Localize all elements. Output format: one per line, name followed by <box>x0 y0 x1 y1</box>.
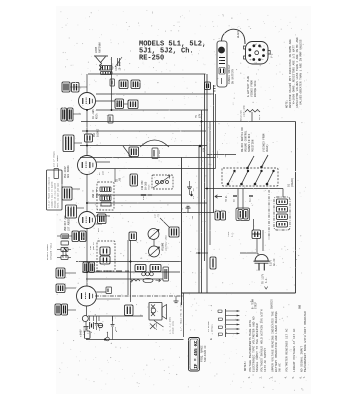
wire stamp links left <box>57 87 87 310</box>
part label R2 <box>128 100 138 109</box>
label text x45 <box>46 242 53 260</box>
label near v3 <box>97 227 100 232</box>
cap C21 near x183 <box>174 296 179 303</box>
svg-text:MICA: MICA <box>96 113 99 119</box>
cap marks x96 <box>95 316 102 331</box>
part label C9 <box>98 214 107 224</box>
label text x52 <box>53 151 60 167</box>
svg-text:5 OHMS: 5 OHMS <box>155 321 158 330</box>
label black lead <box>237 30 240 38</box>
antenna coil T1 secondary <box>101 72 113 75</box>
label switch on-off <box>241 127 248 152</box>
part label R5 <box>62 187 72 200</box>
svg-text:(REAR): (REAR) <box>290 177 294 187</box>
trimmer capacitor C1A <box>115 57 122 67</box>
part label pair y202 <box>66 205 77 218</box>
svg-text:MEASUREMENT MADE WITH UNIT OPE: MEASUREMENT MADE WITH UNIT OPERATED <box>304 311 307 372</box>
wire cathode x87 seg1 <box>86 74 88 93</box>
wire V1 top <box>86 74 88 93</box>
gang capacitor dash-dot box <box>274 197 290 230</box>
part small x106 <box>106 287 112 294</box>
power plug P2 <box>240 253 270 271</box>
resistor R20 line cord <box>240 104 262 121</box>
svg-text:A.F. TRANS PRI 5K OHMS: A.F. TRANS PRI 5K OHMS <box>180 301 183 331</box>
svg-text:(VIEWED FROM: (VIEWED FROM <box>262 133 266 152</box>
svg-text:455: 455 <box>102 170 105 175</box>
tube V1 converter <box>79 93 96 110</box>
antenna coil T1 primary <box>101 66 113 71</box>
wire osc diagonal <box>123 146 132 158</box>
wire x283 <box>282 189 284 198</box>
svg-text:V-5: V-5 <box>271 53 274 58</box>
svg-text:PIPE. DO NOT USE GAS: PIPE. DO NOT USE GAS <box>57 182 60 208</box>
svg-text:4.: 4. <box>285 375 288 378</box>
svg-text:NOTES:: NOTES: <box>244 361 247 371</box>
label text y219 <box>64 215 71 231</box>
wire x128 <box>127 240 129 295</box>
part label row y265 <box>135 265 161 272</box>
label osc text <box>64 165 70 178</box>
labels under chassis box <box>252 299 302 309</box>
label comb delta <box>209 338 213 340</box>
label mid v2 <box>98 170 105 175</box>
part label plug grid <box>252 230 261 239</box>
label x183 vertical <box>180 301 183 331</box>
svg-text:2ND IF: 2ND IF <box>92 241 95 250</box>
label switch viewed <box>262 133 270 152</box>
battery jack circle <box>106 332 113 344</box>
wire y279 <box>86 278 163 280</box>
svg-text:SIGNAL INPUT TO THE RECEIVER: SIGNAL INPUT TO THE RECEIVER <box>256 323 259 372</box>
part label C11 <box>169 227 179 237</box>
wire bottom y339 <box>86 339 184 341</box>
potentiometer R16 <box>149 240 160 258</box>
part label R3 <box>129 147 139 157</box>
wire cathode x87 seg5 <box>86 306 88 316</box>
wire rail x210 <box>209 122 211 246</box>
battery B1 cells <box>80 322 94 335</box>
wire box bottom <box>182 292 296 294</box>
cap C19 x189 <box>187 181 195 195</box>
label freq range <box>201 345 207 362</box>
svg-text:POSITION: POSITION <box>252 139 255 152</box>
svg-text:ADJ 455KC: ADJ 455KC <box>56 154 59 167</box>
dash marks x213 <box>213 86 216 91</box>
part capacitor C18 <box>186 206 195 220</box>
output transformer T3 <box>149 303 162 321</box>
svg-text:1ST AUDIO: 1ST AUDIO <box>68 218 71 231</box>
svg-text:VOICE COIL: VOICE COIL <box>172 320 175 334</box>
potentiometer R15 <box>148 229 159 240</box>
wire y272 <box>82 271 180 273</box>
part label x125 tall <box>125 305 134 316</box>
label socket pins <box>249 43 265 64</box>
interstage transformer T4 dashed <box>97 241 115 271</box>
scan noise speckle <box>57 10 309 391</box>
title MODELS line1 <box>139 41 206 49</box>
svg-text:.05: .05 <box>191 215 194 220</box>
label battery plug <box>228 64 235 84</box>
wire x130 <box>130 240 132 302</box>
wire rail x215 <box>215 94 217 169</box>
junction dot y339 <box>104 339 106 341</box>
label plug below <box>262 273 269 289</box>
wire box left x181 <box>181 158 183 306</box>
label under y316 <box>90 316 119 333</box>
svg-text:DETAIL: DETAIL <box>211 323 214 332</box>
svg-text:WIRING SIDE: WIRING SIDE <box>254 80 257 97</box>
svg-text:ANTENNA: ANTENNA <box>99 42 102 53</box>
wire y261 <box>76 261 182 263</box>
wire x243 <box>242 189 244 210</box>
svg-text:.01: .01 <box>157 213 160 218</box>
part label R1 C3 pair <box>61 108 73 121</box>
label y114 mid <box>195 113 202 118</box>
label S1 rear <box>288 177 294 187</box>
battery B1 cell2 <box>98 322 103 329</box>
wire cathode x87 seg4 <box>86 228 88 286</box>
wire V2 leads <box>97 162 111 169</box>
wire y154 short <box>207 154 236 156</box>
wire y316 <box>88 315 143 317</box>
label C1A <box>115 61 122 70</box>
part resistor vertical <box>54 169 59 179</box>
part label battery pair <box>236 208 250 221</box>
part label x232 <box>233 196 238 202</box>
part label C14 quad <box>55 304 68 315</box>
label osc box <box>141 180 151 190</box>
part label R10 <box>56 284 65 293</box>
label output row <box>96 270 129 272</box>
wire gang dashdot x269 <box>268 190 270 240</box>
part label tall x163 <box>163 267 169 281</box>
svg-text:LINEUP VOLTAGES AT 117 AC: LINEUP VOLTAGES AT 117 AC <box>293 328 296 372</box>
label x227 <box>227 231 234 237</box>
svg-text:VALUES GREATER THAN 1 ARE IN M: VALUES GREATER THAN 1 ARE IN MMF UNLESS <box>300 39 303 105</box>
label switch shown <box>248 133 255 152</box>
svg-text:ON AC: ON AC <box>279 363 282 372</box>
svg-text:AC-DC: AC-DC <box>273 258 276 266</box>
speaker SP1 <box>150 305 167 330</box>
part label pair y262 <box>83 262 95 273</box>
wire bus y74 <box>88 73 206 75</box>
part label C2 <box>62 82 70 92</box>
svg-text:45V: 45V <box>203 147 206 152</box>
svg-text:CHASSIS: CHASSIS <box>271 299 274 309</box>
wire V1 plate <box>96 101 129 104</box>
switch S1 arm A <box>247 156 255 169</box>
part label C12 <box>129 232 137 241</box>
svg-text:117V AC SUPPLY: 117V AC SUPPLY <box>264 347 267 372</box>
wire rail x204 <box>204 74 206 261</box>
IF frequency label box <box>189 338 200 372</box>
capacitor plate comb <box>226 309 240 337</box>
svg-text:STRIP: STRIP <box>255 301 258 309</box>
part small y79 <box>110 79 115 86</box>
label 45v <box>203 147 206 152</box>
wire x238 <box>237 189 239 210</box>
wire rail x201 <box>201 110 203 293</box>
wire bus y145 <box>80 145 207 147</box>
battery B1 cell3 <box>106 331 109 333</box>
wire rail x213 <box>213 85 215 213</box>
svg-text:67V: 67V <box>199 113 202 118</box>
part label pair x215 <box>215 211 226 220</box>
part label pair y80 <box>119 80 140 89</box>
if transformer dome <box>140 140 169 147</box>
part junction y195 <box>191 191 195 199</box>
part label C2b <box>72 83 80 93</box>
svg-text:K=1000 OHMS. RESISTORS ARE 1/2: K=1000 OHMS. RESISTORS ARE 1/2 WATT <box>292 45 296 104</box>
part resistor R13 <box>57 256 71 260</box>
junction dots <box>86 109 208 273</box>
wire bus y121 box top <box>81 121 296 123</box>
svg-text:ON BATTERY: ON BATTERY <box>232 68 235 84</box>
svg-text:1620KC: 1620KC <box>97 128 100 137</box>
wire x115 drop <box>114 169 116 183</box>
resistor arrow y280 <box>130 279 140 282</box>
part label x250 <box>249 196 254 202</box>
switch S1 wafer contacts <box>227 170 274 185</box>
label y132 <box>93 128 100 137</box>
note resistor values text <box>286 37 303 108</box>
svg-text:BATTERY OPERATION AND LOWER RE: BATTERY OPERATION AND LOWER READING <box>275 311 278 372</box>
svg-text:2.: 2. <box>260 375 263 378</box>
switch S1 dashed box <box>222 168 278 186</box>
if transformer T5 dashed box <box>97 182 114 210</box>
label loop antenna <box>95 42 102 53</box>
label comb <box>207 321 214 332</box>
part label C5 <box>115 99 124 109</box>
wire bus y131 <box>82 130 206 132</box>
svg-text:TO B-: TO B- <box>225 195 228 202</box>
coil oval y280 <box>143 278 161 282</box>
wire x257 <box>256 238 258 252</box>
svg-text:47K: 47K <box>142 195 145 200</box>
part label R9 <box>56 268 65 278</box>
label osc grid <box>92 109 99 119</box>
wire cathode x87 seg2 <box>86 110 88 156</box>
svg-text:LINE CORD: LINE CORD <box>243 104 246 117</box>
part label C7 mid <box>85 134 93 142</box>
wire rail x207 <box>206 74 208 293</box>
coil L2 <box>142 272 154 276</box>
part label pair y231 <box>72 231 86 242</box>
part label pair x130 <box>130 174 138 186</box>
svg-text:GND: GND <box>299 304 302 309</box>
svg-text:V5.4: V5.4 <box>258 114 261 120</box>
label socket view <box>271 53 274 58</box>
phone jack J1 <box>82 316 88 330</box>
svg-text:7.: 7. <box>303 375 306 378</box>
label y155 wire <box>208 150 227 158</box>
svg-text:3.: 3. <box>271 375 274 378</box>
part resistor R12 <box>57 248 71 252</box>
part blob x205 <box>205 82 211 90</box>
notes numbered list <box>244 309 307 378</box>
wire y195 <box>96 194 182 196</box>
wire diagonal to C11 <box>160 218 169 227</box>
svg-text:540-1620 KC: 540-1620 KC <box>204 345 207 362</box>
loop antenna L1 <box>94 56 108 71</box>
svg-text:SPEAKER FIELD: SPEAKER FIELD <box>50 242 53 260</box>
oscillator coil T2 dashed box <box>152 175 173 189</box>
wire bus y212 <box>96 212 214 214</box>
tube socket bottom view <box>244 42 271 65</box>
wire bus y203 <box>86 202 207 204</box>
tube V4 output <box>77 286 97 306</box>
wire bus y110 <box>96 109 208 111</box>
label C8 <box>116 177 122 182</box>
label volume control <box>162 235 168 251</box>
label text y248 <box>62 247 68 258</box>
svg-text:TRIM: TRIM <box>148 184 151 190</box>
switch S1 arm B <box>261 155 269 168</box>
part resistor R7 <box>57 234 72 245</box>
svg-text:BLACK: BLACK <box>237 30 240 38</box>
svg-text:5.: 5. <box>292 375 295 378</box>
wire cathode x87 seg3 <box>86 174 88 212</box>
wire x111 <box>111 74 113 110</box>
comb pads <box>218 310 222 335</box>
svg-text:.05: .05 <box>119 177 122 182</box>
battery cell box <box>79 326 90 340</box>
short line y253 <box>196 252 208 254</box>
wire plug drop <box>262 230 264 251</box>
svg-text:TO OSC: TO OSC <box>216 150 219 158</box>
part label y148 mid <box>152 148 161 159</box>
svg-text:AVC: AVC <box>97 227 100 232</box>
tube V2 if amplifier <box>78 156 97 175</box>
arrow B minus <box>215 195 228 202</box>
svg-text:VOLTMETER READINGS 117 AC: VOLTMETER READINGS 117 AC <box>286 328 289 372</box>
label y211 text <box>154 213 160 218</box>
label power plug <box>270 258 277 266</box>
label voice coil <box>169 316 175 334</box>
part label C4 pair <box>63 135 74 152</box>
svg-text:A.C.: A.C. <box>231 232 234 237</box>
battery plug P1 body <box>217 41 227 87</box>
wire V4 leads <box>97 292 121 299</box>
wire x253 <box>253 219 255 230</box>
part capacitor C6 on osc line <box>108 115 113 123</box>
svg-text:REAR): REAR) <box>265 144 269 152</box>
label T5 left <box>92 188 98 198</box>
part marks y193 <box>140 195 152 200</box>
label plug pinout <box>247 75 257 97</box>
svg-text:ADJ 455: ADJ 455 <box>95 188 98 198</box>
label speaker ohms <box>155 321 158 330</box>
wire x183 down <box>183 293 185 337</box>
wire rail x199 <box>198 146 200 293</box>
svg-text:B+ 45V: B+ 45V <box>158 149 161 158</box>
svg-text:10-365: 10-365 <box>119 61 122 70</box>
wire switch y188 <box>205 188 283 190</box>
part label x210 y257 <box>210 257 216 269</box>
title MODELS line2 <box>139 48 194 56</box>
wire bus y157 <box>80 157 216 159</box>
svg-text:RE-250: RE-250 <box>139 55 164 63</box>
svg-text:ADJ 600KC: ADJ 600KC <box>67 165 70 178</box>
wire battery cable <box>222 29 246 44</box>
svg-text:BLK: BLK <box>249 197 252 202</box>
svg-text:CONTROL 1MEG: CONTROL 1MEG <box>165 235 168 251</box>
warning note box <box>47 170 63 210</box>
cap marks x112 <box>111 316 118 340</box>
tube V3 detector <box>79 212 96 229</box>
svg-text:1.: 1. <box>248 375 251 378</box>
title MODELS line3 <box>139 55 164 63</box>
svg-text:A.C.: A.C. <box>265 277 268 283</box>
wire y296 dashdot <box>95 295 184 297</box>
svg-text:IF = 455 KC: IF = 455 KC <box>193 340 199 369</box>
wire box right x295 <box>295 122 297 294</box>
label T4 <box>89 241 95 250</box>
wire bus y94 <box>96 93 214 95</box>
wire bus y168 <box>97 168 216 170</box>
part junction y146 <box>199 145 201 147</box>
wire antenna to bus <box>111 57 113 74</box>
wire V3 leads <box>96 216 111 224</box>
